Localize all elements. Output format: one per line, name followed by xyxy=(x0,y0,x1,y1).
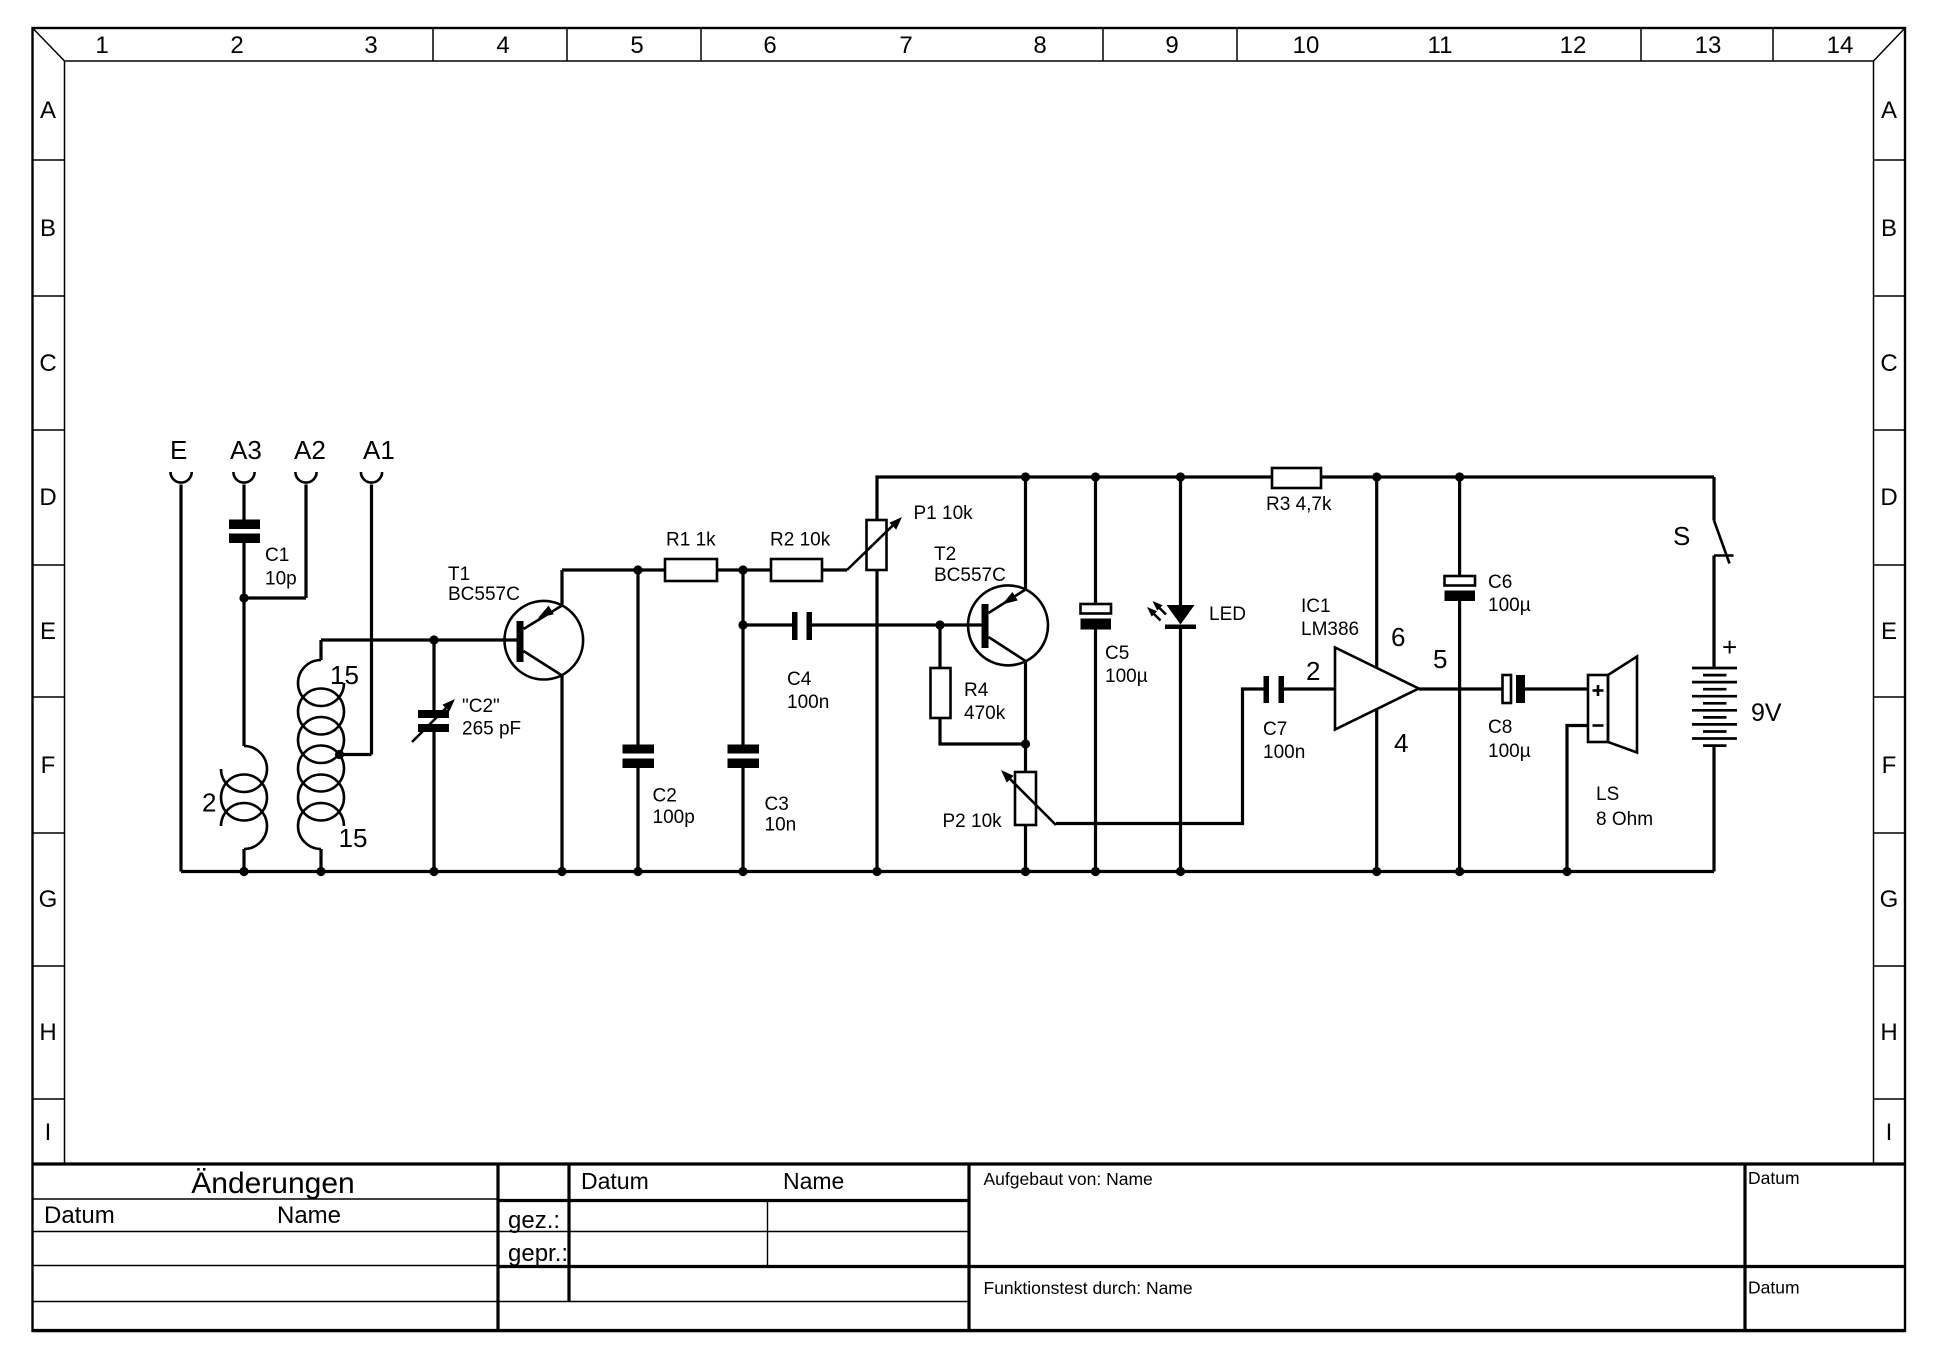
svg-text:15: 15 xyxy=(330,660,359,690)
resistor R3 4,7k xyxy=(1266,468,1332,515)
svg-text:R4: R4 xyxy=(964,680,989,701)
svg-text:F: F xyxy=(1882,752,1897,779)
capacitor C5 100u xyxy=(1081,477,1148,872)
svg-text:gez.:: gez.: xyxy=(508,1207,560,1234)
resistor R1 1k xyxy=(665,530,743,582)
potentiometer P1 10k xyxy=(847,503,973,872)
svg-text:Name: Name xyxy=(783,1168,844,1194)
svg-text:G: G xyxy=(1880,886,1899,913)
svg-text:100n: 100n xyxy=(787,692,829,713)
wire: ground rail (bottom) xyxy=(181,870,1714,873)
svg-text:100µ: 100µ xyxy=(1488,741,1531,762)
svg-text:A: A xyxy=(1881,97,1897,124)
svg-text:D: D xyxy=(1880,484,1897,511)
svg-text:2: 2 xyxy=(230,32,243,59)
inductor primary winding (2 turns) xyxy=(202,598,267,872)
svg-text:S: S xyxy=(1673,521,1690,551)
svg-text:gepr.:: gepr.: xyxy=(508,1240,568,1267)
svg-text:2: 2 xyxy=(202,788,216,818)
capacitor C4 100n xyxy=(743,612,940,713)
svg-text:5: 5 xyxy=(1433,644,1447,674)
svg-text:C1: C1 xyxy=(265,545,289,566)
svg-text:4: 4 xyxy=(496,32,509,59)
battery 9V xyxy=(1692,556,1782,872)
svg-text:A2: A2 xyxy=(294,435,326,465)
svg-text:B: B xyxy=(40,215,56,242)
svg-text:P2 10k: P2 10k xyxy=(943,811,1003,832)
svg-text:10n: 10n xyxy=(765,815,797,836)
resistor R4 470k xyxy=(931,625,1026,744)
svg-text:11: 11 xyxy=(1428,32,1453,59)
svg-text:8: 8 xyxy=(1033,32,1046,59)
svg-text:H: H xyxy=(1880,1019,1897,1046)
potentiometer P2 10k xyxy=(943,744,1057,872)
svg-text:10p: 10p xyxy=(265,569,297,590)
svg-text:Datum: Datum xyxy=(1748,1168,1800,1188)
svg-text:Name: Name xyxy=(277,1202,341,1229)
svg-text:4: 4 xyxy=(1394,728,1408,758)
svg-text:Datum: Datum xyxy=(44,1202,115,1229)
LED xyxy=(1147,477,1246,872)
svg-text:LM386: LM386 xyxy=(1301,619,1359,640)
junction: C1/A2/primary node xyxy=(239,593,248,602)
capacitor C7 100n xyxy=(1263,676,1335,763)
svg-text:T1: T1 xyxy=(448,564,470,585)
svg-text:100p: 100p xyxy=(653,807,695,828)
wire: node down to C4/C3 xyxy=(741,570,744,745)
svg-text:G: G xyxy=(39,886,58,913)
svg-text:9: 9 xyxy=(1165,32,1178,59)
node: coil center tap xyxy=(335,750,344,759)
svg-text:13: 13 xyxy=(1695,32,1722,59)
svg-text:1: 1 xyxy=(95,32,108,59)
capacitor C6 100u xyxy=(1445,477,1531,872)
svg-text:Funktionstest durch: Name: Funktionstest durch: Name xyxy=(984,1278,1193,1298)
svg-text:Änderungen: Änderungen xyxy=(191,1167,354,1200)
svg-text:I: I xyxy=(1886,1119,1893,1146)
svg-text:R1 1k: R1 1k xyxy=(666,530,716,551)
svg-text:C8: C8 xyxy=(1488,717,1512,738)
svg-text:7: 7 xyxy=(899,32,912,59)
TITLE BLOCK xyxy=(33,1164,1904,1331)
svg-text:R3 4,7k: R3 4,7k xyxy=(1266,494,1332,515)
svg-text:15: 15 xyxy=(339,823,368,853)
terminal E xyxy=(170,435,192,872)
svg-text:100µ: 100µ xyxy=(1105,666,1148,687)
svg-text:C: C xyxy=(39,350,56,377)
svg-text:Aufgebaut von: Name: Aufgebaut von: Name xyxy=(984,1169,1153,1189)
wire: C1 junction to A2 xyxy=(244,596,306,599)
svg-text:E: E xyxy=(40,618,56,645)
svg-text:LED: LED xyxy=(1209,604,1246,625)
resistor R2 10k xyxy=(743,530,847,582)
wire: P2 wiper to C7 xyxy=(1056,689,1264,824)
transistor T1 BC557C xyxy=(434,564,583,872)
svg-text:A1: A1 xyxy=(363,435,395,465)
capacitor C1 10p xyxy=(229,520,297,599)
svg-text:F: F xyxy=(41,752,56,779)
svg-text:Datum: Datum xyxy=(581,1168,649,1194)
wire: V+ top rail xyxy=(877,477,1272,520)
svg-text:B: B xyxy=(1881,215,1897,242)
svg-text:R2 10k: R2 10k xyxy=(770,530,831,551)
svg-text:A: A xyxy=(40,97,56,124)
junction: C2 top xyxy=(633,565,642,574)
junction: T1 base node xyxy=(429,635,438,644)
svg-text:H: H xyxy=(39,1019,56,1046)
terminal A3 xyxy=(230,435,262,520)
svg-text:E: E xyxy=(1881,618,1897,645)
junction dots on ground rail xyxy=(239,867,1464,876)
svg-text:C5: C5 xyxy=(1105,643,1129,664)
svg-text:8 Ohm: 8 Ohm xyxy=(1596,809,1653,830)
svg-text:"C2": "C2" xyxy=(462,696,500,717)
svg-text:C6: C6 xyxy=(1488,572,1512,593)
svg-text:6: 6 xyxy=(1391,622,1405,652)
svg-text:9V: 9V xyxy=(1751,699,1782,727)
svg-text:265 pF: 265 pF xyxy=(462,719,521,740)
svg-text:470k: 470k xyxy=(964,703,1006,724)
svg-text:C2: C2 xyxy=(653,786,677,807)
svg-text:+: + xyxy=(1722,632,1737,662)
svg-text:D: D xyxy=(39,484,56,511)
wire: T1 emitter rail to R1 xyxy=(562,568,665,571)
svg-text:6: 6 xyxy=(763,32,776,59)
svg-text:C4: C4 xyxy=(787,669,812,690)
svg-text:100µ: 100µ xyxy=(1488,595,1531,616)
capacitor C2 100p xyxy=(623,570,695,872)
svg-text:12: 12 xyxy=(1560,32,1587,59)
junction: speaker return on ground rail xyxy=(1562,867,1571,876)
junction: R1/R2/C4 node xyxy=(738,565,747,574)
svg-text:C3: C3 xyxy=(765,794,789,815)
svg-text:Datum: Datum xyxy=(1748,1278,1800,1298)
junction: T2 base node xyxy=(935,620,944,629)
op-amp IC1 LM386 xyxy=(1301,477,1447,872)
junction: T2 collector / R4 node xyxy=(1021,739,1030,748)
svg-text:LS: LS xyxy=(1596,784,1619,805)
svg-text:100n: 100n xyxy=(1263,742,1305,763)
wire: coil top to T1 base node xyxy=(321,638,434,641)
svg-text:I: I xyxy=(45,1119,52,1146)
speaker LS 8 Ohm xyxy=(1567,657,1653,872)
transistor T2 BC557C xyxy=(934,477,1048,744)
junction: C4 tee xyxy=(738,620,747,629)
svg-text:5: 5 xyxy=(630,32,643,59)
svg-text:14: 14 xyxy=(1827,32,1854,59)
svg-text:C7: C7 xyxy=(1263,719,1287,740)
capacitor C8 100u xyxy=(1488,675,1588,762)
svg-text:BC557C: BC557C xyxy=(934,565,1006,586)
svg-text:T2: T2 xyxy=(934,544,956,565)
variable capacitor "C2" 265 pF xyxy=(412,640,521,872)
svg-text:BC557C: BC557C xyxy=(448,584,520,605)
terminal A1 xyxy=(361,435,395,755)
inductor secondary winding (15+15 turns) xyxy=(298,640,367,872)
svg-text:IC1: IC1 xyxy=(1301,596,1331,617)
svg-text:C: C xyxy=(1880,350,1897,377)
wire: coil tap to A1 xyxy=(340,753,372,756)
wire: IC1 output to C8 xyxy=(1419,687,1503,690)
svg-text:2: 2 xyxy=(1306,656,1320,686)
svg-text:P1 10k: P1 10k xyxy=(914,503,974,524)
svg-text:10: 10 xyxy=(1293,32,1320,59)
terminal A2 xyxy=(294,435,326,598)
svg-text:E: E xyxy=(170,435,187,465)
switch S xyxy=(1673,477,1734,564)
capacitor C3 10n xyxy=(728,745,797,872)
junction: T2 emitter on V+ rail xyxy=(1021,472,1030,481)
svg-text:A3: A3 xyxy=(230,435,262,465)
svg-text:3: 3 xyxy=(364,32,377,59)
